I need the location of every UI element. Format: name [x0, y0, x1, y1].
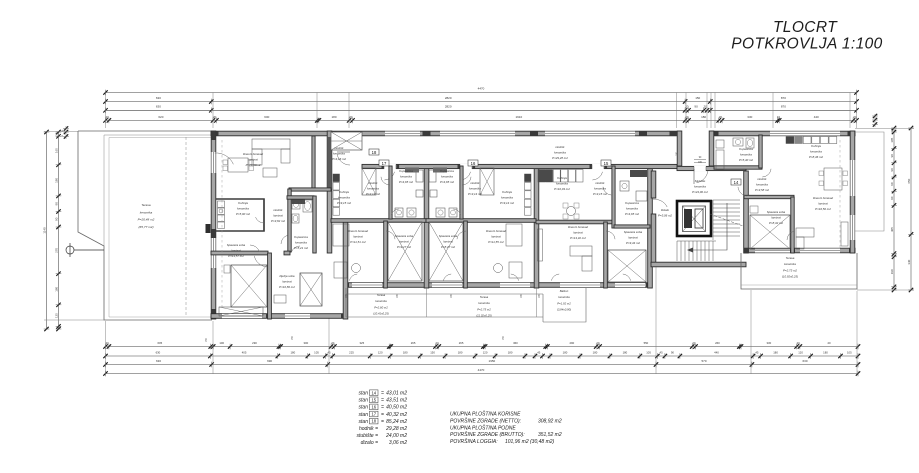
svg-text:45: 45 — [660, 350, 664, 354]
svg-text:290: 290 — [252, 341, 257, 345]
apt16 shaft hatch — [480, 168, 494, 195]
svg-text:=: = — [381, 391, 384, 397]
svg-text:120: 120 — [798, 350, 803, 354]
svg-text:16: 16 — [471, 161, 476, 166]
svg-text:190: 190 — [890, 269, 894, 274]
apt18 wall spavaca/djecja divider — [268, 253, 272, 319]
terrace door arc into living room — [215, 153, 234, 164]
left vertical dimension outer 1140 — [46, 132, 48, 329]
svg-text:DizaloP=3,06 m2: DizaloP=3,06 m2 — [658, 208, 672, 218]
svg-text:29,28 m2: 29,28 m2 — [385, 426, 407, 432]
apt15 bed — [608, 250, 646, 282]
svg-text:90: 90 — [890, 196, 894, 200]
svg-text:290: 290 — [569, 341, 574, 345]
apartment 18 bottom wall — [211, 314, 346, 319]
svg-text:17: 17 — [371, 412, 376, 417]
apt15 bedroom wall — [604, 222, 608, 288]
svg-text:605: 605 — [157, 341, 162, 345]
top dimension row 4 — [106, 119, 857, 121]
svg-text:180: 180 — [773, 350, 778, 354]
corridor door openings — [384, 164, 396, 170]
right vertical dimension inner — [893, 128, 895, 290]
apt18 kitchen counter — [218, 201, 225, 207]
right vertical dimension outer — [910, 128, 912, 290]
bottom dimension row 2 — [106, 355, 859, 357]
bottom dimension row 4 overall 4470 — [106, 373, 859, 375]
left wall dark column blocks — [211, 132, 216, 141]
left terrace outline — [78, 131, 212, 320]
apt14 bath fixtures — [716, 140, 724, 148]
bottom dimension row 3 — [106, 364, 859, 366]
svg-text:225: 225 — [349, 350, 354, 354]
svg-text:KupaonicakeramikaP=5,21 m2: KupaonicakeramikaP=5,21 m2 — [294, 235, 308, 250]
svg-text:14: 14 — [371, 390, 376, 395]
stair break line — [710, 214, 743, 226]
svg-text:90: 90 — [890, 168, 894, 172]
svg-text:630: 630 — [156, 350, 161, 354]
top dimension row 1 overall 4470 — [106, 92, 857, 94]
apt16 mid wall — [426, 219, 536, 223]
svg-text:650: 650 — [907, 178, 911, 183]
svg-text:405: 405 — [242, 350, 247, 354]
apt17 washing machine — [416, 190, 423, 197]
svg-text:105: 105 — [847, 350, 852, 354]
svg-text:105: 105 — [314, 350, 319, 354]
apt16 bedroom wall — [464, 221, 468, 288]
svg-text:180: 180 — [593, 350, 598, 354]
svg-text:stan: stan — [359, 391, 369, 397]
svg-text:40,32 m2: 40,32 m2 — [386, 412, 407, 418]
svg-text:BalkonkeramikaP=1,92 m2(3,84x0: BalkonkeramikaP=1,92 m2(3,84x0,90) — [557, 289, 571, 312]
svg-text:POTKROVLJA 1:100: POTKROVLJA 1:100 — [731, 36, 882, 53]
svg-text:TerasakeramikaP=20,48 m2(65,77: TerasakeramikaP=20,48 m2(65,77 m2) — [138, 203, 155, 229]
svg-text:180: 180 — [701, 115, 706, 119]
apt15 mid wall — [536, 220, 615, 224]
svg-text:690: 690 — [267, 359, 272, 363]
apt17 bed — [388, 222, 422, 281]
apartment tag 15 — [601, 160, 611, 166]
svg-text:351,52 m2: 351,52 m2 — [538, 432, 562, 438]
svg-text:90: 90 — [54, 217, 58, 221]
svg-text:20: 20 — [853, 115, 857, 119]
svg-text:Spavaća sobalaminatP=9,44 m2: Spavaća sobalaminatP=9,44 m2 — [624, 230, 643, 245]
svg-text:dizalo =: dizalo = — [361, 440, 378, 446]
svg-text:TerasakeramikaP=2,75 m2(11,02x: TerasakeramikaP=2,75 m2(11,02x0,25) — [476, 295, 492, 318]
svg-text:180: 180 — [508, 350, 513, 354]
left wall pilaster — [206, 224, 211, 233]
svg-text:90: 90 — [54, 202, 58, 206]
left wall windows — [211, 152, 217, 173]
svg-text:330: 330 — [766, 341, 771, 345]
svg-text:hodnik =: hodnik = — [359, 426, 378, 432]
svg-text:265: 265 — [459, 341, 464, 345]
apt15 living furniture — [567, 207, 576, 216]
terrace strip dividers — [426, 288, 428, 317]
apt18 bed spavaca — [231, 265, 267, 307]
svg-text:KupaonicakeramikaP=4,65 m2: KupaonicakeramikaP=4,65 m2 — [399, 169, 413, 184]
svg-text:Spavaća sobalaminatP=8,32 m2: Spavaća sobalaminatP=8,32 m2 — [767, 210, 786, 225]
svg-text:440: 440 — [714, 350, 719, 354]
apt18 wardrobe strip — [219, 307, 263, 316]
apt18 hodnik wall — [263, 199, 265, 231]
building top wall right apartment — [712, 131, 856, 136]
apartment tag 16 — [468, 160, 478, 166]
divider wall 15-stair — [648, 166, 653, 288]
apt16 kupaonica walls — [460, 166, 463, 219]
elevator shaft — [677, 201, 711, 236]
apt15 kupaonica walls — [612, 166, 615, 228]
apt14 kupaonica walls — [714, 166, 762, 169]
apartment 14 bottom wall — [744, 248, 855, 253]
apt14 doors — [738, 187, 747, 196]
main entry threshold — [694, 162, 706, 164]
svg-text:630: 630 — [156, 105, 161, 109]
svg-text:UKUPNA PLOŠTINA KORISNE: UKUPNA PLOŠTINA KORISNE — [450, 411, 521, 418]
svg-text:TerasakeramikaP=2,73 m2(10,92x: TerasakeramikaP=2,73 m2(10,92x0,25) — [782, 256, 798, 279]
corridor door jambs — [382, 165, 385, 169]
corridor bottom wall — [362, 164, 677, 168]
svg-text:20: 20 — [827, 341, 831, 345]
corridor door arcs into apartments — [384, 172, 394, 180]
svg-text:Dnevni boravaklaminatP=11,55 m: Dnevni boravaklaminatP=11,55 m2 — [486, 229, 507, 244]
svg-text:16: 16 — [371, 405, 376, 410]
apt16 bathroom door arc — [453, 209, 460, 215]
svg-text:18: 18 — [372, 150, 377, 155]
apt18 living furniture sofa group — [252, 139, 290, 149]
svg-text:17: 17 — [382, 161, 387, 166]
svg-text:KuhinjakeramikaP=5,90 m2: KuhinjakeramikaP=5,90 m2 — [236, 201, 250, 216]
svg-text:90: 90 — [890, 182, 894, 186]
svg-text:90: 90 — [890, 154, 894, 158]
svg-text:2820: 2820 — [445, 105, 452, 109]
svg-text:45: 45 — [755, 350, 759, 354]
svg-text:180: 180 — [623, 350, 628, 354]
svg-text:43,01 m2: 43,01 m2 — [386, 391, 407, 397]
svg-text:1950: 1950 — [489, 359, 496, 363]
svg-text:150: 150 — [695, 96, 700, 100]
apt16 doors — [462, 177, 471, 185]
svg-text:600: 600 — [264, 115, 269, 119]
apt18 kupaonica dark shelf — [291, 200, 305, 205]
apt18 wall spavaca top — [211, 251, 268, 255]
svg-text:180: 180 — [458, 350, 463, 354]
svg-text:Dječja sobalaminatP=10,80 m2: Dječja sobalaminatP=10,80 m2 — [279, 274, 295, 289]
apt18 djecja desk — [274, 295, 286, 303]
svg-text:Dnevni boravaklaminatP=13,32 m: Dnevni boravaklaminatP=13,32 m2 — [568, 225, 589, 240]
svg-text:UKUPNA PLOŠTINA PODNE: UKUPNA PLOŠTINA PODNE — [450, 424, 516, 431]
apt17 bathroom fixtures — [395, 208, 403, 217]
svg-text:14: 14 — [734, 180, 739, 185]
apt18 bed djecja — [300, 273, 322, 306]
svg-text:4470: 4470 — [478, 368, 485, 372]
svg-text:630: 630 — [156, 96, 161, 100]
balcony door arcs middle — [443, 274, 451, 281]
svg-text:120: 120 — [378, 350, 383, 354]
svg-text:20: 20 — [685, 115, 689, 119]
apt16 washing machine — [430, 190, 437, 197]
apartment 14 east wall — [850, 131, 855, 253]
stair flight right treads — [713, 199, 740, 201]
apt18 kupaonica fixtures — [292, 201, 300, 209]
svg-text:270: 270 — [54, 248, 58, 253]
svg-text:180: 180 — [331, 115, 336, 119]
apt18 dining table — [228, 158, 248, 172]
svg-text:150: 150 — [430, 350, 435, 354]
apt14 dashed roof line — [839, 140, 841, 248]
svg-text:260: 260 — [715, 341, 720, 345]
balkon outline — [543, 288, 586, 322]
svg-text:870: 870 — [781, 105, 786, 109]
svg-text:620: 620 — [158, 115, 163, 119]
apt14 spavaca walls — [744, 195, 794, 198]
svg-text:570: 570 — [701, 359, 706, 363]
svg-text:=: = — [381, 412, 384, 418]
svg-text:1910: 1910 — [515, 115, 522, 119]
svg-text:15: 15 — [604, 161, 609, 166]
svg-text:20: 20 — [213, 115, 217, 119]
svg-text:265: 265 — [411, 341, 416, 345]
left exterior wall apartment 18 — [211, 131, 216, 319]
svg-text:90: 90 — [699, 157, 702, 159]
apt14 kitchen counter — [786, 137, 794, 144]
svg-text:630: 630 — [802, 359, 807, 363]
svg-text:POVRŠINA LOGGIA:: POVRŠINA LOGGIA: — [450, 438, 498, 445]
svg-text:HodniklaminatP=3,82 m2: HodniklaminatP=3,82 m2 — [271, 208, 285, 223]
apt17 mid wall — [331, 219, 426, 223]
svg-text:15: 15 — [371, 397, 376, 402]
svg-text:HodnikkeramikaP=3,58 m2: HodnikkeramikaP=3,58 m2 — [755, 177, 769, 192]
main entry door leaf — [693, 169, 695, 184]
svg-text:180: 180 — [823, 350, 828, 354]
right terrace outline — [741, 253, 857, 289]
svg-text:stubište =: stubište = — [356, 433, 378, 439]
building top wall left section — [211, 131, 677, 136]
svg-text:150: 150 — [206, 337, 208, 342]
stair flight lower treads — [676, 241, 678, 261]
stair block west wall — [651, 171, 656, 198]
apartment18 east wall upper — [327, 131, 332, 253]
apt16 kitchen counter — [525, 174, 532, 182]
svg-text:1140: 1140 — [42, 227, 46, 234]
top dimension row 3 — [106, 109, 857, 111]
svg-text:40,50 m2: 40,50 m2 — [386, 405, 407, 411]
svg-text:870: 870 — [781, 96, 786, 100]
terrace strip below apartments — [346, 293, 543, 295]
top extension lines — [105, 93, 107, 129]
svg-text:120: 120 — [483, 350, 488, 354]
svg-text:2820: 2820 — [445, 96, 452, 100]
svg-text:20: 20 — [685, 105, 689, 109]
svg-text:105: 105 — [646, 350, 651, 354]
svg-text:43,51 m2: 43,51 m2 — [386, 398, 407, 404]
svg-text:Dnevni boravaklaminatP=16,50 m: Dnevni boravaklaminatP=16,50 m2 — [813, 196, 834, 211]
top wall columns — [423, 131, 431, 136]
svg-text:3,06 m2: 3,06 m2 — [389, 440, 407, 446]
svg-text:StubištekeramikaP=24,00 m2: StubištekeramikaP=24,00 m2 — [692, 179, 708, 194]
left extension lines — [44, 131, 78, 133]
svg-text:HodnikkeramikaP=29,28 m2: HodnikkeramikaP=29,28 m2 — [552, 145, 568, 160]
svg-text:HodnikkeramikaP=3,15 m2: HodnikkeramikaP=3,15 m2 — [593, 181, 607, 196]
svg-text:165: 165 — [54, 148, 58, 153]
svg-text:150: 150 — [503, 335, 505, 340]
apt18 entry door arc — [337, 154, 350, 165]
stair arrow — [690, 203, 727, 250]
svg-text:KupaonicakeramikaP=4,65 m2: KupaonicakeramikaP=4,65 m2 — [625, 201, 639, 216]
svg-text:360: 360 — [513, 341, 518, 345]
apt17 bedroom wall — [384, 221, 388, 288]
svg-text:45: 45 — [537, 350, 541, 354]
svg-text:10: 10 — [777, 115, 781, 119]
apt18 spavaca door arc — [254, 256, 266, 267]
mini parapet dim top-right — [873, 114, 877, 118]
svg-text:180: 180 — [54, 286, 58, 291]
apt18 interior doors — [281, 235, 288, 244]
apt18 entry hodnik wall horizontal — [289, 188, 331, 191]
apartment tag 17 — [379, 160, 389, 166]
stairwell door arc — [652, 199, 667, 207]
right loggia outline east of apartment 14 — [855, 132, 884, 231]
svg-text:stan: stan — [359, 398, 369, 404]
svg-text:85,24 m2: 85,24 m2 — [386, 419, 407, 425]
bottom extension lines — [105, 321, 107, 374]
svg-text:180: 180 — [563, 350, 568, 354]
svg-text:=: = — [381, 405, 384, 411]
svg-text:HodnikkeramikaP=3,14 m2: HodnikkeramikaP=3,14 m2 — [366, 181, 380, 196]
svg-text:Dnevni boravaklaminatP=11,51 m: Dnevni boravaklaminatP=11,51 m2 — [348, 229, 369, 244]
apt14 bed — [750, 215, 790, 249]
svg-text:=: = — [381, 398, 384, 404]
svg-text:KuhinjakeramikaP=9,14 m2: KuhinjakeramikaP=9,14 m2 — [500, 190, 514, 205]
svg-text:stan: stan — [359, 419, 369, 425]
svg-text:90: 90 — [671, 350, 675, 354]
stair block bottom wall — [651, 262, 746, 267]
svg-text:440: 440 — [814, 115, 819, 119]
svg-text:KuhinjakeramikaP=8,46 m2: KuhinjakeramikaP=8,46 m2 — [809, 144, 823, 159]
svg-text:TLOCRT: TLOCRT — [773, 19, 838, 36]
svg-text:POVRŠINE ZGRADE (NETTO):: POVRŠINE ZGRADE (NETTO): — [450, 417, 522, 424]
apt18 dashed roof line — [221, 140, 223, 310]
section mark A — [66, 246, 74, 254]
svg-text:330: 330 — [747, 115, 752, 119]
svg-text:stan: stan — [359, 405, 369, 411]
svg-text:4470: 4470 — [478, 87, 485, 91]
svg-text:TerasakeramikaP=2,60 m2(10,41x: TerasakeramikaP=2,60 m2(10,41x0,25) — [373, 293, 389, 316]
apt17 doors — [381, 177, 390, 185]
svg-text:180: 180 — [54, 178, 58, 183]
top wall windows — [385, 131, 420, 137]
mini parapet dim top-left — [64, 126, 68, 130]
right extension lines — [855, 128, 914, 130]
apartment tag 14 — [731, 179, 741, 185]
svg-text:325: 325 — [359, 341, 364, 345]
apt17 bathroom door arc — [391, 209, 398, 215]
apt14 shelf — [841, 222, 848, 246]
apt17 living furniture — [333, 224, 349, 246]
apartment18 east wall lower — [343, 221, 348, 319]
svg-text:KupaonicakeramikaP=5,40 m2: KupaonicakeramikaP=5,40 m2 — [739, 147, 753, 162]
svg-text:24,00 m2: 24,00 m2 — [385, 433, 407, 439]
svg-text:=: = — [381, 419, 384, 425]
apt17 shaft hatch — [362, 168, 376, 195]
divider wall 17-16 — [424, 166, 429, 288]
svg-text:300: 300 — [303, 341, 308, 345]
svg-text:20: 20 — [704, 105, 708, 109]
svg-text:90: 90 — [694, 105, 698, 109]
apartment tag 18 — [369, 149, 379, 155]
svg-text:150: 150 — [292, 335, 294, 340]
apt18 entry hodnik wall vertical — [312, 136, 315, 190]
left terrace dashed roof line — [185, 137, 187, 317]
apt15 kupaonica fixtures top row — [630, 170, 647, 177]
svg-text:125: 125 — [54, 313, 58, 318]
apt16 living furniture — [506, 224, 522, 246]
svg-text:KuhinjakeramikaP=9,15 m2: KuhinjakeramikaP=9,15 m2 — [337, 190, 351, 205]
svg-text:Spavaća sobalaminatP=13,57 m2: Spavaća sobalaminatP=13,57 m2 — [227, 243, 246, 258]
top dimension row 2 — [106, 101, 857, 103]
svg-text:20: 20 — [106, 115, 110, 119]
entry recess east wall — [709, 131, 714, 166]
left vertical dimension inner — [58, 132, 60, 329]
svg-text:18: 18 — [371, 419, 376, 424]
apt16 bathroom fixtures — [449, 208, 457, 217]
apt15 doors — [603, 187, 611, 195]
svg-text:550: 550 — [644, 341, 649, 345]
entry recess west wall — [677, 131, 682, 166]
svg-text:Spavaća sobalaminatP=8,27 m2: Spavaća sobalaminatP=8,27 m2 — [439, 234, 458, 249]
svg-text:340: 340 — [907, 259, 911, 264]
svg-text:POVRŠINE ZGRADE (BRUTTO):: POVRŠINE ZGRADE (BRUTTO): — [450, 431, 525, 438]
apt17 kitchen counter — [333, 174, 340, 182]
svg-text:25: 25 — [54, 132, 58, 136]
entry band wall with main door — [677, 166, 746, 170]
svg-text:KupaonicakeramikaP=4,65 m2: KupaonicakeramikaP=4,65 m2 — [440, 169, 454, 184]
svg-text:308,92 m2: 308,92 m2 — [538, 418, 562, 424]
apt18 kitchen walls — [216, 199, 264, 231]
apt18 kupaonica walls — [313, 196, 316, 253]
apt17 kupaonica walls — [389, 166, 392, 219]
svg-text:105: 105 — [890, 137, 894, 142]
svg-text:305: 305 — [890, 227, 894, 232]
svg-text:stan: stan — [359, 412, 369, 418]
bottom dimension row 1 — [106, 346, 859, 348]
divider wall 16-15 — [534, 166, 539, 288]
svg-text:20: 20 — [349, 115, 353, 119]
svg-text:25: 25 — [62, 134, 64, 137]
svg-text:180: 180 — [403, 350, 408, 354]
apartment 14 west wall — [744, 171, 749, 253]
svg-text:630: 630 — [156, 359, 161, 363]
middle bottom wall — [346, 283, 651, 288]
left terrace parapet inner lines — [104, 135, 211, 246]
apt15 kitchen counter — [538, 170, 545, 183]
svg-text:20: 20 — [719, 115, 723, 119]
apt18 entry niche hatched — [331, 132, 362, 150]
apt14 dining table — [824, 168, 842, 190]
elevator car — [683, 206, 706, 232]
svg-text:100: 100 — [219, 341, 224, 345]
apt16 bed — [429, 222, 463, 281]
svg-text:101,96 m2 (30,48 m2): 101,96 m2 (30,48 m2) — [505, 439, 555, 445]
apt14 sofa — [796, 228, 814, 237]
svg-text:180: 180 — [290, 350, 295, 354]
